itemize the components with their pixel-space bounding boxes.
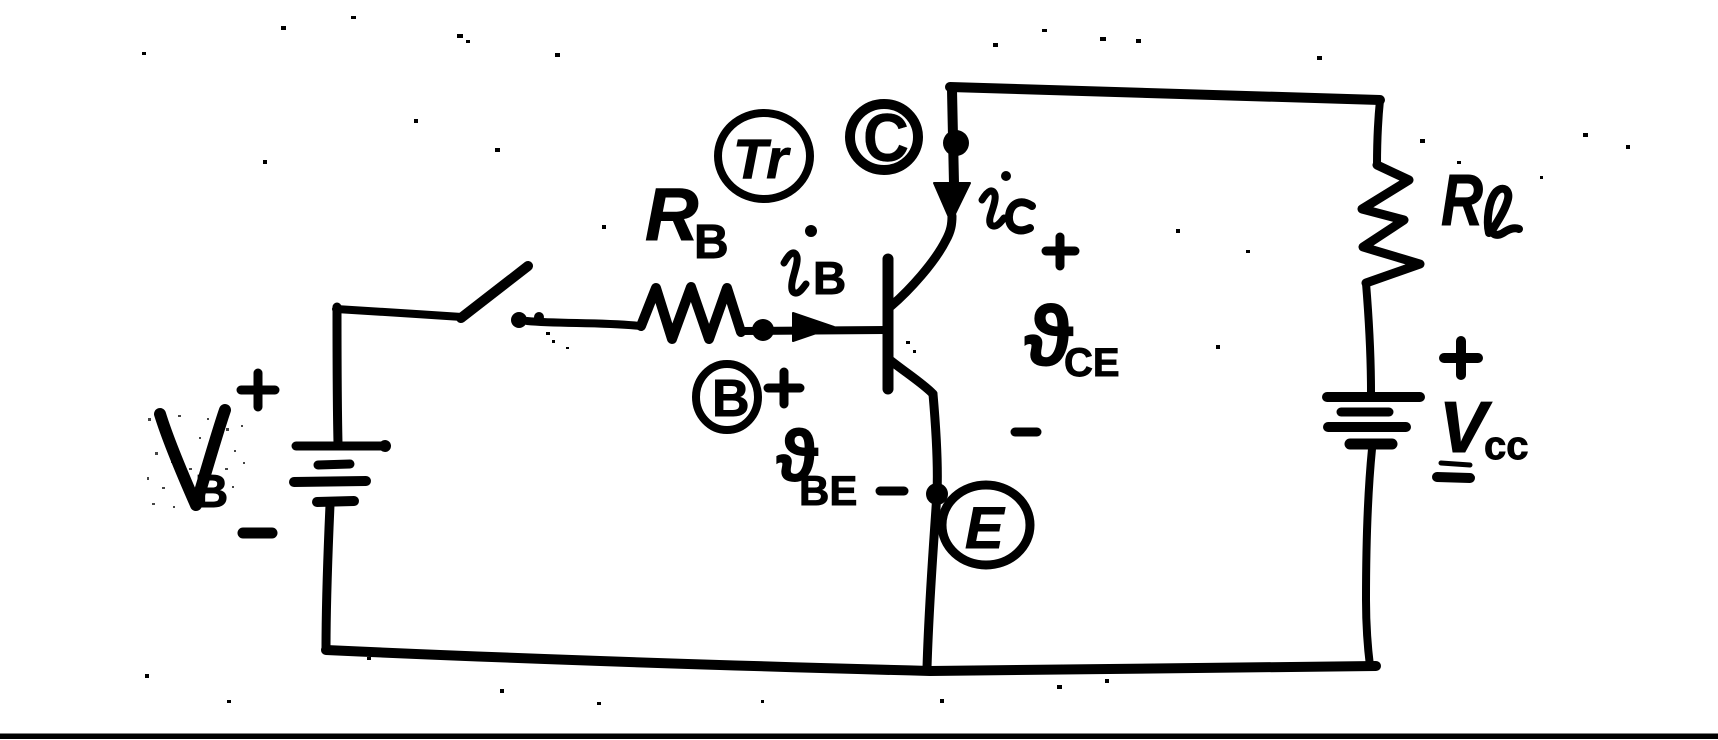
- battery Vcc plate long 1: [1327, 392, 1420, 402]
- transistor Tr base bar: [883, 259, 894, 389]
- wire: RB to base with iB arrow: [741, 330, 886, 331]
- iB arrowhead: [793, 313, 834, 341]
- wire: top horizontal: [950, 87, 1380, 100]
- svg-text:B: B: [195, 465, 228, 517]
- svg-text:CE: CE: [1064, 341, 1120, 385]
- battery Vcc plate short 1: [1341, 408, 1389, 417]
- Vcc minus sign: [1437, 477, 1470, 478]
- resistor Rl zigzag: [1362, 165, 1420, 283]
- transistor Tr emitter diagonal: [890, 360, 933, 394]
- battery VB plate end blob: [379, 440, 391, 452]
- battery Vcc plate long 2: [1328, 422, 1406, 432]
- label circle Tr: [718, 113, 810, 199]
- battery VB plate short 2: [317, 501, 354, 502]
- label Rl script ell (drawn): [1488, 189, 1519, 235]
- VB plus sign: [241, 373, 275, 407]
- vBE plus sign: [768, 372, 800, 404]
- wire: VB top-left vertical: [337, 307, 338, 443]
- node E junction dot: [926, 483, 948, 505]
- svg-text:B: B: [712, 370, 750, 428]
- ic dot of i: [1001, 171, 1011, 181]
- switch S1 blade: [461, 266, 528, 318]
- switch contact node dot: [511, 312, 527, 328]
- wire: Rl to Vcc battery: [1366, 283, 1371, 392]
- ic arrowhead on collector: [934, 183, 970, 222]
- svg-text:C: C: [863, 100, 909, 176]
- transistor Tr collector diagonal: [890, 216, 952, 307]
- node label circle C: [850, 104, 918, 170]
- svg-text:B: B: [813, 252, 846, 304]
- vBE minus sign: [880, 487, 904, 496]
- node label circle B: [696, 364, 758, 430]
- VB label noise smudge: [147, 415, 245, 508]
- wire: bottom horizontal: [326, 650, 1376, 671]
- svg-text:R: R: [645, 173, 698, 256]
- svg-text:R: R: [1441, 161, 1483, 241]
- iB letter i (cursive): [784, 253, 806, 293]
- switch contact small dot: [534, 312, 544, 322]
- wire: Vcc battery to bottom: [1366, 449, 1372, 666]
- svg-text:B: B: [694, 216, 729, 269]
- ic letter i (cursive): [982, 191, 1004, 226]
- iB dot of i: [805, 225, 817, 237]
- ic letter c (cursive): [1009, 202, 1032, 230]
- svg-text:Tr: Tr: [733, 127, 791, 190]
- Vcc plus sign: [1444, 341, 1478, 375]
- vCE plus sign: [1046, 237, 1075, 266]
- scanner edge black strip: [0, 734, 1718, 740]
- node label circle E: [942, 485, 1030, 565]
- wire: collector vertical to top: [952, 90, 954, 184]
- battery VB plate long 2: [294, 481, 366, 482]
- Vcc underline: [1441, 463, 1470, 465]
- wire: VB bottom vertical: [326, 505, 330, 650]
- node C junction dot: [943, 130, 969, 156]
- label VB letter V: [160, 410, 225, 505]
- battery VB plate short 1: [318, 464, 350, 465]
- resistor RB zigzag: [641, 287, 741, 339]
- svg-text:cc: cc: [1484, 424, 1529, 468]
- vCE minus sign: [1015, 428, 1037, 437]
- wire: top-left horizontal to switch: [336, 309, 462, 317]
- svg-text:E: E: [965, 496, 1006, 561]
- wire: switch to RB: [527, 321, 641, 326]
- svg-text:BE: BE: [799, 467, 857, 514]
- wire: right top vertical: [1377, 100, 1380, 165]
- battery Vcc plate short 2: [1350, 439, 1392, 450]
- node dot after RB: [752, 319, 774, 341]
- VB minus sign: [243, 528, 272, 539]
- battery VB plate long 1: [296, 442, 382, 451]
- wire: emitter vertical down: [927, 394, 937, 668]
